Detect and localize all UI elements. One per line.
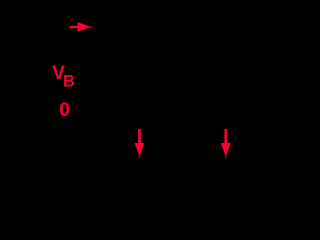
current arrow IC2 (red, downward) bbox=[221, 129, 231, 158]
wire right branch bbox=[224, 27, 226, 120]
wire top rail bbox=[10, 26, 265, 28]
current arrow IC1 (red, downward) bbox=[135, 129, 145, 158]
wire base bus bbox=[65, 119, 218, 121]
svg-text:B: B bbox=[63, 72, 75, 90]
wire left branch bbox=[139, 27, 141, 120]
current arrow Iin (red, pointing right along top rail) bbox=[70, 22, 93, 32]
transistor Q2 bbox=[211, 158, 239, 186]
svg-text:0: 0 bbox=[59, 100, 70, 121]
ground bbox=[130, 186, 150, 204]
transistor Q1 bbox=[126, 158, 154, 186]
